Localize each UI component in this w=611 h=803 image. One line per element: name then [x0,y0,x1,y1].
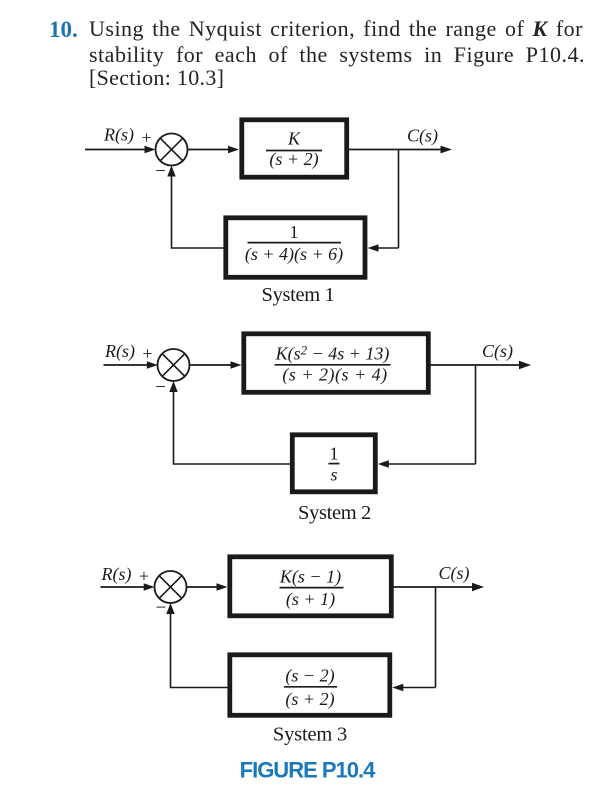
fraction bar H1 [248,242,342,244]
arrowhead into summer 3 [144,583,155,590]
wire block G2 output to C(s) [431,364,521,366]
wire input system 1 [85,149,147,151]
svg-text:System 3: System 3 [273,724,347,746]
wire input system 3 [101,586,147,588]
block G3 K(s-1)/(s+1) [230,557,391,616]
svg-text:−: − [155,377,166,398]
svg-text:K(s2 − 4s + 13): K(s2 − 4s + 13) [275,343,390,365]
svg-text:+: + [142,343,152,363]
svg-text:s: s [330,465,337,485]
summing junction system 3 [155,571,187,603]
problem text line 1 [89,17,583,41]
problem text line 3 [89,66,224,90]
wire takeoff to block H1 [377,247,399,249]
wire block G3 output to C(s) [394,586,474,588]
wire takeoff to block H3 [401,687,436,689]
svg-text:(s + 2): (s + 2) [269,149,318,170]
svg-text:−: − [155,161,166,182]
arrowhead into summer 2 [147,361,158,368]
svg-text:C(s): C(s) [482,341,513,362]
svg-text:1: 1 [330,444,339,464]
wire summer 2 to block G2 [190,364,234,366]
summing junction system 1 [156,134,188,166]
svg-text:(s + 1): (s + 1) [286,589,335,610]
fraction bar G3 [280,587,344,589]
arrowhead into summer 3 bottom [166,603,174,614]
block H1 1/((s+4)(s+6)) [226,218,365,277]
node takeoff system 3 [435,587,437,688]
svg-text:−: − [156,598,167,619]
svg-text:R(s): R(s) [104,341,135,362]
arrowhead into block G1 [228,146,239,153]
node takeoff system 1 [398,150,400,249]
fraction bar H2 [329,463,340,465]
svg-text:FIGURE P10.4: FIGURE P10.4 [240,758,376,783]
svg-text:(s + 2): (s + 2) [285,689,334,710]
block H2 1/s [292,435,375,492]
fraction bar G1 [266,150,322,152]
summing junction system 2 [158,349,190,381]
arrowhead into summer 1 [145,146,156,153]
arrowhead into block H1 [368,244,379,251]
svg-text:1: 1 [290,222,299,242]
arrowhead output system 2 [519,361,531,369]
svg-text:(s + 4)(s + 6): (s + 4)(s + 6) [245,244,343,265]
svg-text:R(s): R(s) [101,564,132,585]
wire summer 3 to block G3 [187,586,220,588]
arrowhead into summer 1 bottom [167,166,175,177]
svg-text:System 2: System 2 [298,502,371,524]
svg-text:K: K [287,129,301,149]
arrowhead into block H3 [392,684,403,691]
svg-text:C(s): C(s) [439,563,470,584]
wire block H3 back to summer 3 [171,613,230,688]
arrowhead into summer 2 bottom [169,381,177,392]
wire input system 2 [104,364,150,366]
wire summer 1 to block G1 [188,149,231,151]
arrowhead into block G2 [231,361,242,368]
svg-text:K(s − 1): K(s − 1) [279,567,341,588]
wire block H1 back to summer 1 [172,174,226,248]
block G2 K(s^2-4s+13)/((s+2)(s+4)) [244,334,428,393]
arrowhead into block G3 [217,583,228,590]
problem text line 2 [89,43,585,67]
svg-text:+: + [139,566,149,586]
block H3 (s-2)/(s+2) [230,655,390,716]
svg-text:+: + [141,128,151,148]
node takeoff system 2 [475,365,477,464]
svg-text:C(s): C(s) [407,126,438,147]
wire takeoff to block H2 [387,463,476,465]
problem number 10. [49,18,78,42]
svg-text:System 1: System 1 [262,284,335,306]
arrowhead into block H2 [378,460,389,467]
block G1 K/(s+2) [242,120,347,177]
arrowhead output system 1 [441,146,453,154]
svg-text:R(s): R(s) [103,125,134,146]
fraction bar H3 [284,686,337,688]
svg-text:(s − 2): (s − 2) [285,666,334,687]
arrowhead output system 3 [472,583,484,591]
svg-text:(s + 2)(s + 4): (s + 2)(s + 4) [282,365,387,386]
wire block H2 back to summer 2 [174,390,293,465]
fraction bar G2 [275,364,391,366]
wire block G1 output to C(s) [349,149,441,151]
